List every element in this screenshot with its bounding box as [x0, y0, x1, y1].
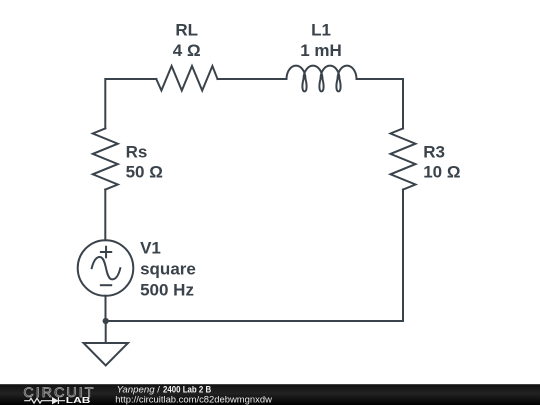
ground symbol: [84, 343, 129, 366]
V1 minus sign: [100, 284, 112, 286]
wire junction to ground: [105, 321, 107, 343]
wire V1 to junction: [105, 296, 107, 321]
wire R3 to bottom-right corner: [402, 190, 404, 321]
svg-text:RL: RL: [175, 20, 198, 39]
wire top-left corner (RL left lead to left rail): [105, 79, 156, 128]
wire bottom rail: [106, 320, 403, 322]
wire L1 to top-right corner down to R3: [357, 79, 404, 128]
svg-text:500 Hz: 500 Hz: [140, 280, 194, 299]
svg-text:http://circuitlab.com/c82debwm: http://circuitlab.com/c82debwmgnxdw: [115, 395, 272, 405]
resistor RL: [156, 66, 217, 91]
wire RL to L1: [218, 78, 287, 80]
svg-text:square: square: [140, 259, 196, 278]
svg-text:Rs: Rs: [126, 142, 148, 161]
V1 sine wave: [92, 257, 121, 279]
svg-text:1 mH: 1 mH: [300, 41, 342, 60]
svg-text:L1: L1: [311, 20, 331, 39]
svg-text:LAB: LAB: [66, 395, 91, 405]
svg-text:50 Ω: 50 Ω: [126, 163, 163, 182]
svg-text:10 Ω: 10 Ω: [423, 163, 460, 182]
V1 plus sign: [100, 246, 112, 258]
wire Rs to V1: [104, 190, 106, 241]
logo wire-resistor-diode glyph: [24, 397, 65, 404]
footer bar: [0, 384, 540, 405]
svg-text:V1: V1: [140, 239, 161, 258]
voltage source V1 circle: [78, 240, 134, 296]
resistor R3: [391, 128, 416, 189]
inductor L1: [287, 66, 357, 92]
resistor Rs: [93, 128, 118, 189]
node junction dot: [103, 318, 109, 324]
svg-text:4 Ω: 4 Ω: [173, 41, 201, 60]
svg-text:R3: R3: [423, 142, 445, 161]
